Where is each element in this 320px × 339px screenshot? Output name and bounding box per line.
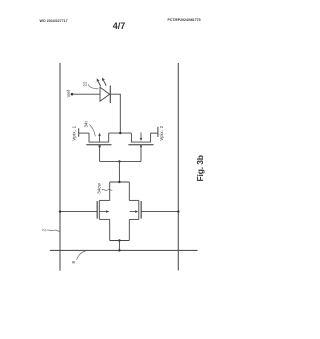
terminal tick Vpix,2 [157, 127, 159, 137]
transistor M3 source arrow (right) [99, 210, 109, 213]
transistor M3 gate bar [96, 201, 98, 219]
transistor M1 gate lead [99, 145, 101, 161]
svg-text:Vref: Vref [66, 89, 71, 97]
wire gates of M1,M2 common line [100, 160, 141, 162]
LED 22 cathode bar [109, 86, 111, 104]
left vertical bus line (column line) [59, 63, 61, 271]
svg-text:Fig. 3b: Fig. 3b [195, 155, 205, 181]
transistor M2 source arrow (down) [140, 132, 143, 141]
top bar of cross-coupled pair 34cw [110, 181, 130, 183]
page number 4/7 [113, 21, 126, 31]
leader line for label 22 [88, 84, 98, 89]
right vertical bus line (column line) [177, 63, 179, 270]
wire bottom bar to row line [118, 241, 120, 251]
transistor M4 channel [138, 200, 140, 219]
svg-text:34cw: 34cw [97, 183, 102, 194]
transistor M2 channel U [131, 133, 150, 142]
svg-text:8: 8 [71, 261, 76, 264]
label Vpix, 1 [72, 125, 77, 140]
transistor M1 gate bar [86, 144, 111, 146]
label 2 (pixel circuit) [41, 229, 46, 232]
header application number [168, 18, 201, 22]
wire M2 to Vpix,2 terminal [151, 132, 158, 134]
svg-text:22: 22 [83, 81, 88, 87]
LED 22 triangle (anode) [100, 87, 110, 101]
junction dot left bus [59, 210, 61, 212]
leader line for label 34t [89, 125, 95, 137]
svg-text:WO 2024/227717: WO 2024/227717 [40, 19, 68, 23]
wire Vref to LED anode [72, 93, 100, 95]
wire inner vertical left lower [109, 219, 111, 240]
terminal tick Vpix,1 [78, 128, 80, 136]
transistor M4 top arm [129, 199, 139, 201]
leader line for label 8 [77, 251, 86, 260]
label 34cw [97, 183, 102, 194]
leader line for label 34cw [102, 188, 113, 191]
junction dot center node [119, 132, 121, 134]
junction dot bottom bar [118, 239, 120, 241]
svg-text:Vpix, 2: Vpix, 2 [159, 125, 164, 140]
header publication number [40, 19, 68, 23]
junction dot top bar [118, 181, 120, 183]
label Vref [66, 89, 71, 97]
leader squiggle for label 2 [47, 230, 60, 232]
svg-text:2: 2 [41, 229, 46, 232]
junction dot right bus [177, 210, 179, 212]
transistor M3 top arm [99, 199, 109, 201]
svg-text:Vpix, 1: Vpix, 1 [72, 125, 77, 140]
svg-text:PCT/EP2024/061775: PCT/EP2024/061775 [168, 18, 201, 22]
node Vref (terminal dot) [71, 93, 74, 96]
bottom horizontal row line (net 8) [50, 249, 198, 251]
wire gate line down to cross-coupled pair [118, 161, 120, 182]
svg-text:34t: 34t [84, 120, 89, 127]
transistor M3 channel [98, 200, 100, 219]
label Vpix, 2 [159, 125, 164, 140]
transistor M4 gate lead to right bus [141, 211, 178, 213]
label 22 [83, 81, 88, 87]
LED emission arrow 1 [97, 78, 101, 86]
wire inner vertical right upper [128, 182, 130, 201]
junction dot row line [118, 249, 120, 251]
transistor M2 gate lead [140, 145, 142, 161]
label 34t [84, 120, 89, 127]
transistor M2 gate bar [128, 144, 153, 146]
transistor M3 gate lead to left bus [60, 211, 97, 213]
transistor M1 gate junction dot [99, 145, 101, 147]
wire M1 drain to M2 drain (node at LED cathode) [109, 132, 132, 134]
bottom bar of cross-coupled pair [110, 240, 130, 242]
wire Vpix,1 to transistor 34t source [79, 132, 89, 134]
LED emission arrow 2 [102, 78, 106, 86]
wire LED cathode to center node [110, 94, 120, 133]
transistor M2 gate junction dot [140, 145, 142, 147]
transistor M4 gate bar [140, 201, 142, 219]
transistor M3 bottom arm [99, 218, 109, 220]
label 8 (row line) [71, 261, 76, 264]
svg-text:4/7: 4/7 [113, 21, 126, 31]
transistor 34t M1 channel U [89, 133, 109, 142]
wire inner vertical left upper [109, 182, 111, 201]
transistor M1 source arrow (up) [98, 133, 101, 143]
transistor M4 source arrow (right, into channel) [130, 210, 139, 213]
transistor M4 bottom arm [129, 218, 139, 220]
wire inner vertical right lower [128, 219, 130, 240]
junction dot gate line [118, 160, 120, 162]
figure label Fig. 3b [195, 155, 205, 181]
